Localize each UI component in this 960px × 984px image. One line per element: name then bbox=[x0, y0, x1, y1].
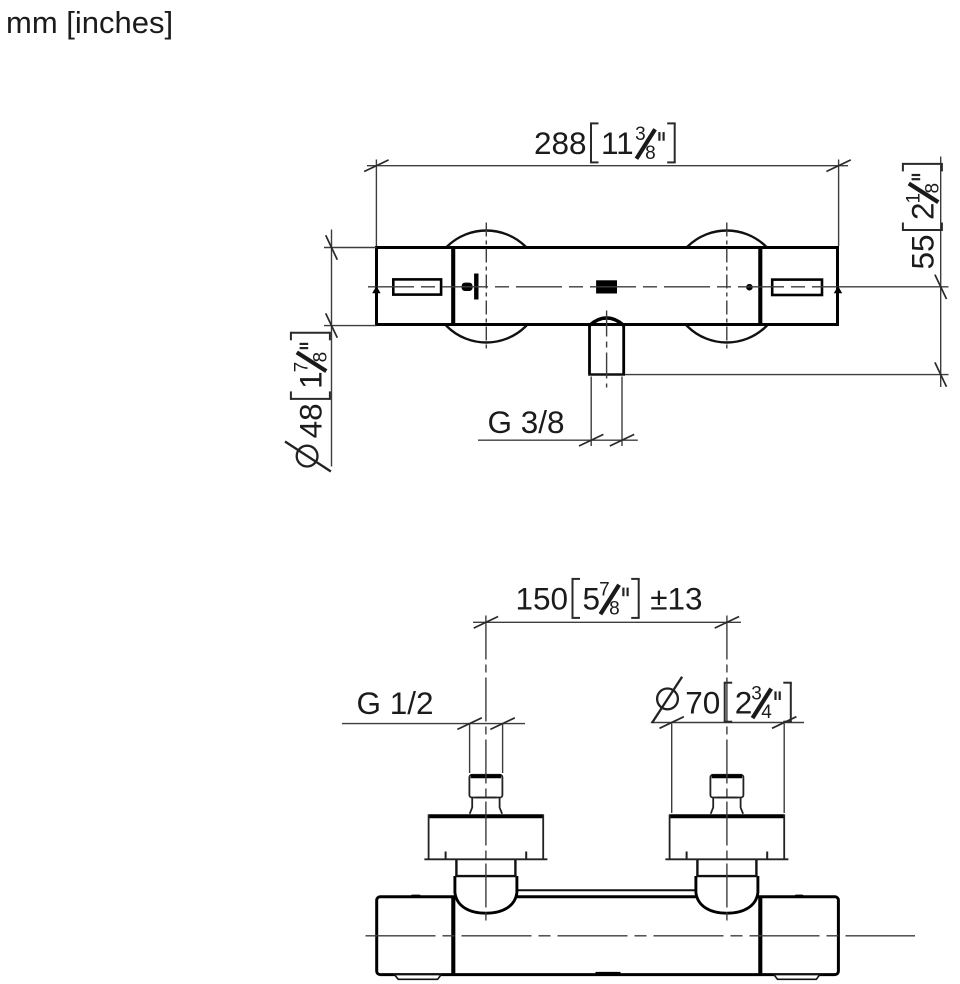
svg-text:8: 8 bbox=[609, 598, 620, 619]
centre-line arrow mark at body right edge bbox=[834, 286, 842, 293]
G 1/2 extension line right bbox=[502, 724, 504, 773]
svg-text:55: 55 bbox=[905, 234, 941, 269]
svg-text:7: 7 bbox=[599, 580, 610, 601]
left inlet G 1/2 threaded nipple bbox=[469, 775, 502, 814]
left inlet escutcheon dia 70 bbox=[424, 814, 547, 859]
svg-text:3: 3 bbox=[751, 683, 762, 704]
right cap separator (top view) bbox=[758, 897, 762, 975]
svg-text:8: 8 bbox=[922, 183, 943, 194]
dia 70 extension line right bbox=[783, 724, 785, 813]
G 1/2 leader line bbox=[342, 718, 525, 730]
svg-text:2: 2 bbox=[905, 202, 941, 220]
svg-text:48: 48 bbox=[293, 403, 329, 438]
G 3/8 extension line left bbox=[590, 377, 592, 447]
left circle vertical centre line bbox=[485, 223, 487, 351]
dia 70 extension line left bbox=[671, 724, 673, 813]
dimension text dia 48 [1 7/8"] rotated bbox=[285, 332, 331, 472]
valve body bar (front view) bbox=[377, 248, 838, 325]
centre-line arrow mark at body left edge bbox=[372, 286, 380, 293]
svg-text:150: 150 bbox=[516, 581, 569, 617]
dimension 48 line bbox=[326, 230, 338, 467]
svg-text:G 3/8: G 3/8 bbox=[488, 404, 565, 440]
G 3/8 text bbox=[488, 404, 565, 440]
dimension 48 extension line top bbox=[324, 247, 377, 249]
outlet pipe (front view) bbox=[588, 318, 625, 375]
outlet pipe vertical centre line bbox=[606, 311, 608, 388]
right cap label window bbox=[772, 280, 822, 295]
right inlet G 1/2 threaded nipple bbox=[710, 775, 743, 814]
svg-text:±13: ±13 bbox=[650, 581, 702, 617]
G 3/8 extension line right bbox=[621, 377, 623, 447]
left cap label window bbox=[393, 279, 441, 294]
right inlet union bowl bbox=[696, 875, 758, 913]
legend mm [inches] bbox=[6, 5, 173, 40]
G 1/2 extension line left bbox=[469, 724, 471, 773]
svg-text:1: 1 bbox=[293, 371, 329, 389]
dia 70 leader line bbox=[651, 717, 804, 729]
valve body bar (top view) bbox=[377, 897, 839, 975]
dimension 55 line bbox=[935, 157, 947, 388]
svg-text:11: 11 bbox=[601, 125, 634, 161]
svg-text:288: 288 bbox=[534, 125, 587, 161]
dimension text dia 70 [2 3/4"] bbox=[652, 677, 792, 723]
G 1/2 text bbox=[357, 685, 434, 721]
svg-text:70: 70 bbox=[685, 684, 720, 720]
svg-text:3: 3 bbox=[635, 124, 646, 145]
svg-text:8: 8 bbox=[310, 352, 331, 363]
svg-text:4: 4 bbox=[761, 702, 772, 723]
dimension 48 extension line bottom bbox=[324, 325, 377, 327]
dimension text 150 [5 7/8"] +-13 bbox=[516, 579, 703, 619]
left wall escutcheon circle (front view) bbox=[430, 231, 542, 343]
left inlet escutcheon inner rim stubs bbox=[446, 852, 527, 859]
svg-text:1: 1 bbox=[904, 193, 925, 204]
svg-text:7: 7 bbox=[292, 362, 313, 373]
left handle cap separator (front view) bbox=[451, 248, 455, 325]
right handle cap separator (front view) bbox=[758, 248, 762, 325]
left cap top set-screw mark bbox=[411, 895, 421, 898]
temperature scale bar mark bbox=[474, 274, 478, 300]
right inlet union nut bbox=[696, 859, 757, 876]
right cap top set-screw mark bbox=[795, 895, 804, 898]
left inlet union bowl bbox=[455, 875, 517, 913]
dimension text 288 [11 3/8"] bbox=[534, 123, 676, 163]
right inlet escutcheon inner rim stubs bbox=[687, 852, 768, 859]
left inlet vertical centre line bbox=[485, 616, 487, 926]
outlet pipe silhouette on bar bottom edge (top view) bbox=[596, 972, 621, 975]
svg-text:2: 2 bbox=[735, 684, 753, 720]
dimension 288 extension line left bbox=[375, 160, 377, 247]
temperature knob mark (black blob) bbox=[462, 283, 473, 291]
dimension 150 line bbox=[473, 617, 741, 629]
dimension 288 line bbox=[364, 160, 851, 172]
svg-text:8: 8 bbox=[645, 143, 656, 164]
left cap separator (top view) bbox=[451, 897, 455, 975]
dimension 288 extension line right bbox=[838, 160, 840, 247]
right inlet escutcheon dia 70 bbox=[665, 814, 788, 859]
horizontal centre line of body (front view) bbox=[368, 286, 949, 288]
volume handle dot mark bbox=[746, 284, 753, 291]
left cap bottom pad bbox=[394, 975, 441, 980]
right inlet vertical centre line bbox=[726, 616, 728, 926]
dimension 55 extension line (pipe bottom) bbox=[625, 374, 949, 376]
horizontal centre line of bar (top view) bbox=[366, 935, 916, 937]
right cap bottom pad bbox=[774, 975, 820, 980]
left inlet union nut bbox=[455, 859, 516, 876]
bridge ledge between inlets (top view) bbox=[516, 889, 696, 891]
svg-text:G 1/2: G 1/2 bbox=[357, 685, 434, 721]
dimension text 55 [2 1/8"] rotated bbox=[903, 163, 943, 270]
right circle vertical centre line bbox=[726, 223, 728, 351]
right wall escutcheon circle (front view) bbox=[671, 231, 783, 343]
svg-text:5: 5 bbox=[583, 581, 601, 617]
G 3/8 leader line bbox=[478, 434, 638, 446]
centre logo plate (black rectangle) bbox=[596, 280, 617, 293]
svg-text:mm [inches]: mm [inches] bbox=[6, 5, 173, 40]
